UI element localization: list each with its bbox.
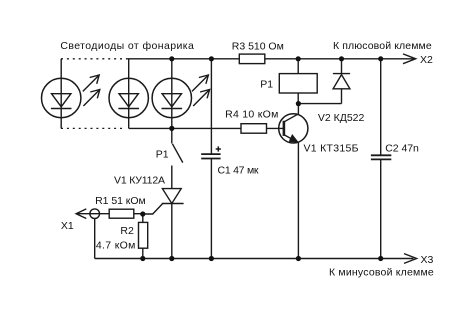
svg-text:C2 47n: C2 47n: [385, 142, 419, 154]
svg-text:Светодиоды от фонарика: Светодиоды от фонарика: [60, 40, 194, 52]
svg-text:К плюсовой клемме: К плюсовой клемме: [333, 40, 432, 52]
svg-text:R3 510 Ом: R3 510 Ом: [232, 41, 284, 53]
svg-text:R1 51 кОм: R1 51 кОм: [95, 195, 146, 207]
svg-text:V1 КУ112А: V1 КУ112А: [114, 174, 165, 186]
svg-text:C1 47 мк: C1 47 мк: [218, 165, 259, 177]
svg-text:К минусовой клемме: К минусовой клемме: [329, 266, 434, 278]
svg-text:4.7 кОм: 4.7 кОм: [96, 240, 135, 252]
svg-text:V2 КД522: V2 КД522: [318, 112, 365, 124]
svg-text:X2: X2: [420, 54, 433, 66]
svg-text:P1: P1: [156, 149, 169, 161]
svg-text:P1: P1: [260, 79, 273, 91]
svg-text:X3: X3: [421, 254, 434, 266]
svg-text:R4 10 кОм: R4 10 кОм: [225, 109, 278, 121]
svg-text:V1 КТ315Б: V1 КТ315Б: [304, 142, 359, 154]
svg-text:R2: R2: [120, 225, 134, 237]
svg-text:X1: X1: [61, 220, 74, 232]
